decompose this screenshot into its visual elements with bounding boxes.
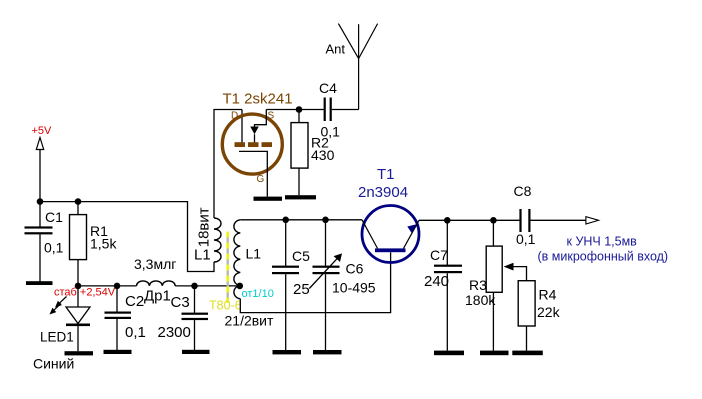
svg-text:T1: T1 (377, 166, 395, 183)
wire C7 top lead (446, 220, 448, 265)
svg-text:10-495: 10-495 (332, 280, 376, 296)
ground gate (254, 197, 283, 201)
wire output rail (419, 219, 520, 221)
wire L1 secondary top rail (240, 219, 362, 221)
svg-text:L1: L1 (246, 246, 262, 262)
svg-text:0,1: 0,1 (516, 231, 536, 247)
wire C1 bottom lead (39, 234, 41, 281)
wire LED anode lead (77, 286, 79, 307)
svg-text:R3: R3 (469, 277, 487, 293)
svg-text:180k: 180k (465, 292, 496, 308)
wire R1 top lead (77, 202, 79, 215)
node junction dot F (R2/C4) (296, 106, 303, 113)
transistor U1 channel bars (235, 142, 273, 147)
inductor L1 primary winding 18вит (214, 218, 221, 262)
ground R4 (512, 351, 543, 356)
antenna Ant (338, 24, 377, 110)
wire R2 top lead (298, 110, 300, 123)
ground R2 (285, 195, 316, 199)
capacitor C3 (182, 313, 209, 321)
resistor R1 (70, 215, 87, 260)
resistor R4 (518, 281, 535, 326)
transistor Q1 T1 2n3904 body (362, 206, 419, 263)
svg-text:C2: C2 (125, 293, 144, 310)
capacitor C7 (434, 265, 462, 274)
ground C2 (104, 350, 132, 354)
svg-text:240: 240 (424, 273, 449, 290)
transistor Q1 collector line (362, 220, 378, 249)
capacitor C2 (105, 312, 132, 320)
svg-text:25: 25 (293, 281, 310, 298)
LED LED1 diode triangle (66, 307, 90, 324)
wire R2 bottom lead (298, 168, 300, 195)
wire R4 bottom lead (526, 326, 528, 351)
wire C6 top lead (325, 220, 327, 266)
node junction dot K (R3) (490, 217, 497, 224)
ground C5 (273, 350, 302, 354)
node junction dot H (C5) (282, 217, 289, 224)
potentiometer R3 body (486, 246, 502, 292)
output arrow (586, 217, 599, 224)
svg-text:T1 2sk241: T1 2sk241 (223, 91, 293, 108)
svg-text:3,3млг: 3,3млг (134, 256, 176, 272)
LED LED1 emission arrow 1 (60, 297, 67, 303)
wire C5 top lead (285, 220, 287, 266)
wire R3 top lead (492, 220, 494, 246)
wire C6 bottom lead (325, 274, 327, 350)
svg-text:0,1: 0,1 (44, 240, 64, 256)
node junction dot A (37, 198, 44, 205)
wire стаб rail left segment (78, 285, 137, 287)
svg-text:C7: C7 (430, 247, 448, 263)
wire D pin drop (241, 110, 243, 143)
svg-text:+5V: +5V (32, 125, 53, 137)
node junction dot C (R1/LED/стаб) (75, 283, 82, 290)
wire top rail to L1 primary bottom (40, 202, 214, 272)
wire L1 primary top to D (214, 110, 242, 219)
+5V power arrow (36, 138, 43, 150)
node junction dot B (75, 198, 82, 205)
node junction dot E (C3) (191, 283, 198, 290)
transistor Q1 emitter line with arrow (404, 220, 420, 248)
svg-text:G: G (257, 174, 265, 185)
svg-text:L1: L1 (194, 247, 211, 264)
wire R3 bottom lead (492, 292, 494, 350)
wire стаб rail right segment (175, 285, 240, 287)
svg-text:R4: R4 (539, 287, 557, 303)
capacitor C5 (272, 266, 299, 275)
wire C2 bottom lead (116, 319, 118, 350)
ground C7 (434, 351, 464, 356)
svg-text:Т80-6: Т80-6 (209, 299, 242, 313)
svg-text:D: D (231, 111, 238, 122)
wire S to R2/C4 (266, 109, 324, 111)
wire +5V drop (39, 150, 41, 202)
transistor U1 source branch with substrate arrow (255, 110, 267, 127)
svg-text:2300: 2300 (158, 324, 191, 341)
node junction dot D (C2) (114, 283, 121, 290)
capacitor C1 (25, 226, 53, 234)
wire LED cathode lead (77, 326, 79, 351)
wire C3 bottom lead (194, 320, 196, 350)
LED LED1 cathode bar (66, 324, 90, 327)
svg-text:21/2вит: 21/2вит (225, 313, 275, 329)
svg-text:0,1: 0,1 (321, 124, 341, 140)
transistor U1 gate line (239, 151, 267, 196)
svg-text:Др1: Др1 (144, 288, 171, 305)
wire output to arrow (531, 219, 586, 221)
svg-text:стаб +2,54V: стаб +2,54V (54, 287, 116, 299)
svg-text:от1/10: от1/10 (242, 288, 274, 300)
wire C1 top lead (39, 202, 41, 227)
svg-text:Синий: Синий (33, 356, 74, 372)
ground C1 (26, 281, 53, 285)
node junction dot I (C6) (322, 217, 329, 224)
svg-text:C8: C8 (514, 183, 532, 199)
transistor U1 T1 2sk241 body (222, 114, 282, 174)
svg-text:C5: C5 (292, 248, 310, 264)
svg-text:18вит: 18вит (196, 207, 213, 247)
transformer core T80-6 (226, 232, 228, 304)
svg-text:2n3904: 2n3904 (358, 184, 408, 201)
LED LED1 emission arrow 2 (54, 304, 61, 310)
ground LED1 (65, 351, 94, 355)
wire C5 bottom lead (285, 274, 287, 350)
svg-text:C6: C6 (346, 261, 364, 277)
wire C4 to antenna (332, 109, 359, 111)
svg-text:к УНЧ 1,5мв: к УНЧ 1,5мв (567, 235, 638, 249)
svg-text:(в микрофонный вход): (в микрофонный вход) (538, 250, 669, 264)
node junction dot G (tap) (237, 283, 244, 290)
wire C2 top lead (116, 286, 118, 312)
wire R1 bottom lead (77, 260, 79, 286)
svg-text:22k: 22k (537, 304, 561, 320)
ground C3 (182, 350, 210, 354)
resistor R2 (291, 123, 308, 169)
svg-text:C1: C1 (45, 209, 63, 225)
inductor Др1 choke (137, 281, 176, 286)
svg-text:430: 430 (311, 147, 335, 163)
ground R3 (480, 351, 509, 356)
svg-text:LED1: LED1 (40, 330, 74, 345)
svg-text:1,5k: 1,5k (90, 236, 117, 252)
svg-text:C3: C3 (171, 294, 190, 311)
capacitor C6 variable (313, 266, 340, 275)
transistor Q1 base bar (375, 248, 406, 252)
node junction dot J (C7) (444, 217, 451, 224)
wire L1 secondary bottom to base bus (240, 252, 390, 312)
ground C6 (313, 350, 342, 354)
inductor L1 secondary winding (234, 220, 240, 299)
svg-text:C4: C4 (319, 80, 337, 96)
potentiometer R3 wiper arrow (504, 263, 514, 271)
svg-text:Ant: Ant (326, 42, 346, 57)
wire C3 top lead (194, 286, 196, 313)
capacitor C6 variable arrow (309, 258, 337, 288)
wire C7 bottom lead (446, 273, 448, 350)
svg-text:0,1: 0,1 (125, 324, 146, 341)
capacitor C8 (519, 209, 530, 232)
svg-text:S: S (268, 111, 275, 122)
capacitor C4 (324, 98, 332, 122)
